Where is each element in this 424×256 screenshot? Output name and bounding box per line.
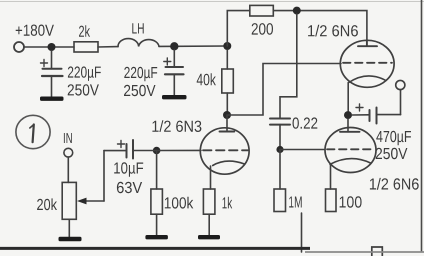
node rail/40k: [223, 42, 231, 50]
cathode V1: [213, 161, 245, 165]
tube V1 1/2 6N3: [152, 115, 249, 189]
node anode V1 / grid drive: [223, 111, 231, 119]
wire 200 to anode V2a: [273, 11, 367, 41]
cathode V2a: [349, 76, 386, 83]
ground (C1): [40, 97, 64, 101]
node cathode V2a / anode V2b: [344, 111, 352, 119]
resistor R 1M: [274, 150, 302, 212]
tube V2b 1/2 6N6 (bottom): [325, 119, 419, 190]
wire 0.22 feed: [280, 14, 297, 118]
resistor R 100: [326, 189, 362, 212]
node rail/C2: [170, 42, 178, 50]
wiper arrow: [85, 200, 104, 202]
capacitor C 220µF 250V (second): [124, 50, 184, 96]
wire (to lower circuit, cropped): [301, 213, 303, 252]
anode plate V2a: [358, 41, 377, 46]
wire grid V2b: [280, 149, 324, 151]
resistor R 100k: [151, 151, 193, 236]
node grid V2b: [276, 146, 283, 153]
inductor LH: [118, 23, 159, 46]
wiper riser wire: [103, 151, 105, 201]
capacitor C 0.22: [270, 117, 317, 149]
wire anode V1 to grid V2a: [227, 64, 341, 116]
cathode lead V1: [210, 166, 212, 189]
resistor R 2k: [74, 25, 98, 52]
tube V2a 1/2 6N6 (top): [308, 25, 394, 112]
ground (1k): [198, 235, 220, 239]
cathode lead V2a: [347, 83, 349, 112]
wire LH to 40k node: [159, 45, 227, 47]
capacitor C 10µF 63V: [104, 140, 157, 193]
grid V1 (dashed): [203, 149, 248, 151]
capacitor C 470µF 250V: [352, 104, 411, 159]
anode plate V1: [220, 131, 235, 133]
badge channel 1: [16, 115, 50, 148]
ground (100k): [145, 235, 168, 239]
grid V2a (dashed): [343, 62, 392, 64]
cathode V2b: [330, 159, 371, 165]
capacitor C 220µF 250V (first): [41, 51, 101, 97]
ground (20k): [59, 237, 82, 241]
wire grid V1: [157, 149, 201, 151]
ground (C2): [162, 95, 187, 99]
resistor R 40k: [197, 50, 234, 115]
wire rail left: [24, 46, 74, 48]
anode lead V2b: [347, 119, 349, 132]
node rail/C1: [48, 43, 56, 51]
terminal OUT: [396, 80, 405, 114]
node 200/0.22: [293, 7, 301, 15]
anode plate V2b: [340, 131, 360, 133]
wire rail up to 200: [227, 11, 250, 46]
resistor R 200: [250, 5, 273, 34]
potentiometer R 20k: [37, 151, 104, 237]
terminal +180V: [14, 25, 54, 53]
node grid V1 / 100k / 10µF: [153, 147, 161, 155]
border frame (decorative): [0, 1, 424, 3]
anode lead V1: [226, 115, 228, 132]
resistor R 1k: [203, 189, 232, 235]
cathode lead V2b: [330, 165, 332, 190]
wire 2k to LH: [98, 46, 118, 48]
component (cropped, bottom edge): [372, 247, 383, 256]
grid V2b (dashed): [327, 148, 374, 150]
terminal IN: [64, 133, 73, 182]
